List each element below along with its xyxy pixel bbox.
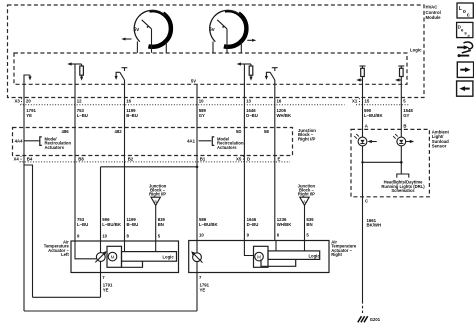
svg-text:BN: BN: [158, 222, 164, 227]
junction dot left: [361, 161, 363, 163]
svg-text:X4: X4: [14, 157, 20, 162]
svg-text:X5: X5: [236, 157, 242, 162]
arrow right of P2: [247, 39, 256, 42]
svg-text:Logic: Logic: [410, 48, 422, 53]
wire pin 5 to logic right: [304, 241, 306, 251]
svg-text:B8: B8: [78, 157, 84, 162]
svg-text:486: 486: [62, 129, 70, 134]
svg-text:D–BU: D–BU: [247, 222, 259, 227]
motor M left: [107, 246, 122, 267]
wire D2 down: [400, 146, 402, 174]
off-page bracket to DRL schematics: [397, 174, 409, 178]
P2 left leg: [212, 42, 214, 53]
svg-text:M: M: [111, 255, 115, 260]
svg-text:Logic: Logic: [309, 253, 321, 258]
wire 1791 rail to left actuator pin 7: [33, 296, 101, 298]
wire 1646 vertical: [243, 98, 245, 241]
svg-text:Actuators: Actuators: [217, 145, 237, 150]
junction dot right: [400, 161, 403, 164]
svg-text:X3: X3: [15, 99, 21, 104]
svg-text:YE: YE: [200, 287, 206, 292]
svg-text:5E: 5E: [264, 129, 269, 134]
feedback potentiometer right: [191, 251, 202, 262]
svg-text:5V: 5V: [191, 79, 196, 84]
svg-text:X1: X1: [352, 99, 358, 104]
svg-text:L–BU: L–BU: [77, 222, 88, 227]
joining wire: [363, 161, 402, 163]
arrow left of P1: [121, 38, 131, 41]
wire 1236 vertical: [274, 98, 276, 241]
svg-text:GY: GY: [199, 113, 205, 118]
svg-text:16: 16: [126, 99, 131, 104]
wire pin 9 to pot left: [75, 241, 96, 259]
svg-text:Schematics: Schematics: [391, 188, 415, 193]
svg-text:BN: BN: [306, 222, 312, 227]
svg-text:15: 15: [365, 99, 370, 104]
svg-text:D: D: [247, 157, 250, 162]
svg-text:WH/BK: WH/BK: [277, 113, 292, 118]
wire 589 vertical: [196, 98, 198, 241]
Air Temperature Actuator - Right box: [189, 241, 329, 273]
svg-text:BK/WH: BK/WH: [367, 223, 382, 228]
wire 1548 to sensor: [400, 98, 402, 138]
Logic box: [14, 53, 407, 84]
connector X1 row: [356, 104, 410, 106]
wire pin 10 to pot top: [100, 241, 102, 253]
svg-text:4A4: 4A4: [15, 138, 23, 143]
svg-text:B–BU: B–BU: [126, 113, 138, 118]
svg-text:Right I/P: Right I/P: [149, 192, 166, 197]
wire 1791 branch to left actuator: [24, 165, 33, 297]
svg-text:10: 10: [199, 233, 204, 238]
svg-text:Right I/P: Right I/P: [298, 192, 315, 197]
junction block triangle B: [149, 184, 167, 206]
arrow at D2: [406, 140, 414, 143]
arrow at D1: [367, 140, 376, 143]
wire pin 5 to logic: [155, 241, 157, 252]
wire 1199 vertical: [124, 98, 126, 242]
wire 839 BN right vertical: [304, 205, 306, 240]
HVAC Control Module box: [8, 5, 425, 98]
wire pin 8 to logic: [124, 241, 126, 252]
svg-text:4A1: 4A1: [187, 138, 195, 143]
junction block bottom row: [20, 161, 291, 163]
wire 839 BN left vertical: [155, 205, 157, 241]
ground G201: [358, 316, 381, 322]
motor M right: [254, 246, 269, 267]
wire pin 6 to logic right: [275, 241, 277, 251]
legend icon left arrow: [457, 81, 473, 96]
svg-text:10: 10: [199, 99, 204, 104]
svg-text:E: E: [278, 157, 281, 162]
svg-text:B: B: [403, 124, 406, 129]
wire 1661 BK/WH: [362, 197, 364, 301]
junction on wire 589: [196, 166, 199, 169]
P1 right leg: [165, 42, 167, 53]
svg-text:M: M: [257, 255, 261, 260]
P2 wiper leg: [226, 29, 228, 53]
svg-text:GY: GY: [403, 113, 409, 118]
wire D1 down: [362, 146, 364, 197]
Air Temperature Actuator - Left box: [71, 241, 179, 273]
svg-text:Logic: Logic: [163, 254, 175, 259]
input arrow + pull-up resistor on wire 1646: [237, 62, 253, 97]
svg-text:B1: B1: [200, 157, 206, 162]
svg-text:Actuators: Actuators: [45, 145, 65, 150]
P1 left leg: [136, 42, 138, 53]
wire 753 vertical: [74, 98, 76, 242]
wire 1791 YE vertical: [23, 98, 25, 312]
svg-text:16: 16: [277, 99, 282, 104]
photodiode D1: [354, 134, 367, 146]
svg-text:5v: 5v: [133, 27, 139, 33]
svg-text:5v: 5v: [209, 27, 215, 33]
P1 wiper leg: [151, 29, 153, 53]
wire 590 to sensor: [362, 98, 364, 138]
svg-text:B4: B4: [27, 157, 33, 162]
svg-text:o: o: [463, 9, 466, 15]
wire pin 9 to motor right: [244, 241, 253, 256]
svg-text:12: 12: [77, 99, 82, 104]
wire 1791 rail to right actuator pin 7: [24, 310, 197, 312]
svg-text:L–BU: L–BU: [77, 113, 88, 118]
svg-text:20: 20: [26, 99, 31, 104]
svg-text:Left: Left: [61, 252, 69, 257]
wire pot bottom to pin 7: [100, 261, 102, 297]
svg-text:5D: 5D: [236, 129, 242, 134]
svg-text:C: C: [365, 198, 368, 203]
svg-text:Right I/P: Right I/P: [298, 136, 316, 141]
dashed wire to ground: [362, 301, 364, 313]
svg-text:L–BU/BK: L–BU/BK: [102, 222, 122, 227]
connector X3 row: [20, 104, 345, 106]
branch callout to Mode/Recirculation Actuators: [199, 136, 244, 150]
wire pin 10 to pot top right: [196, 241, 198, 253]
svg-text:B2: B2: [128, 157, 134, 162]
svg-text:c: c: [467, 13, 470, 19]
logic block left: [122, 252, 177, 268]
wire 589 inside module: [196, 84, 198, 97]
svg-text:L–BU/BK: L–BU/BK: [199, 222, 219, 227]
legend icon splice arrows: [457, 42, 473, 57]
svg-text:13: 13: [246, 99, 251, 104]
potentiometer P1 (left actuator command pot): [133, 9, 171, 47]
svg-text:YE: YE: [26, 113, 32, 118]
P2 right leg: [240, 42, 242, 53]
wire pot bottom to pin 7 right: [196, 262, 198, 311]
svg-text:482: 482: [115, 129, 123, 134]
legend icon DESC: [457, 22, 473, 38]
output driver symbol on wire 1791: [24, 75, 32, 98]
logic block right: [261, 251, 320, 266]
svg-text:B–BU: B–BU: [127, 222, 139, 227]
junction block triangle A: [298, 184, 316, 206]
switch symbol on wire 1199: [115, 68, 128, 98]
svg-text:D–BU: D–BU: [246, 113, 258, 118]
potentiometer P2 (right actuator command pot): [209, 9, 247, 47]
switch symbol on wire 1206: [265, 68, 278, 98]
input arrow + pull-up resistor on wire 753: [67, 62, 83, 97]
svg-text:A: A: [303, 199, 306, 204]
svg-text:Right: Right: [331, 252, 342, 257]
branch callout to Mode/Recirculation Actuators: [24, 136, 71, 150]
5V pull-up resistor on wire 590: [356, 66, 365, 98]
photodiode D2: [393, 134, 406, 146]
svg-text:G201: G201: [370, 317, 381, 322]
svg-text:A: A: [365, 124, 368, 129]
svg-text:L–BU/BK: L–BU/BK: [364, 113, 384, 118]
svg-text:Module: Module: [426, 15, 442, 20]
legend icon right arrow: [457, 62, 473, 77]
5V pull-up resistor on wire 1548: [395, 66, 404, 98]
wire 596 branch horizontal: [101, 166, 198, 168]
svg-text:Sensor: Sensor: [432, 144, 447, 149]
svg-text:10: 10: [102, 234, 107, 239]
svg-text:B: B: [154, 199, 157, 204]
legend icon LOC: [457, 3, 473, 19]
svg-text:c: c: [468, 33, 471, 38]
svg-text:YE: YE: [103, 287, 109, 292]
wire 596 vertical: [100, 167, 102, 241]
feedback potentiometer left: [95, 251, 106, 262]
Junction Block - Right I/P box: [13, 128, 293, 156]
svg-text:WH/BK: WH/BK: [277, 222, 292, 227]
Ambient Light/Sunload Sensor box: [351, 129, 429, 196]
